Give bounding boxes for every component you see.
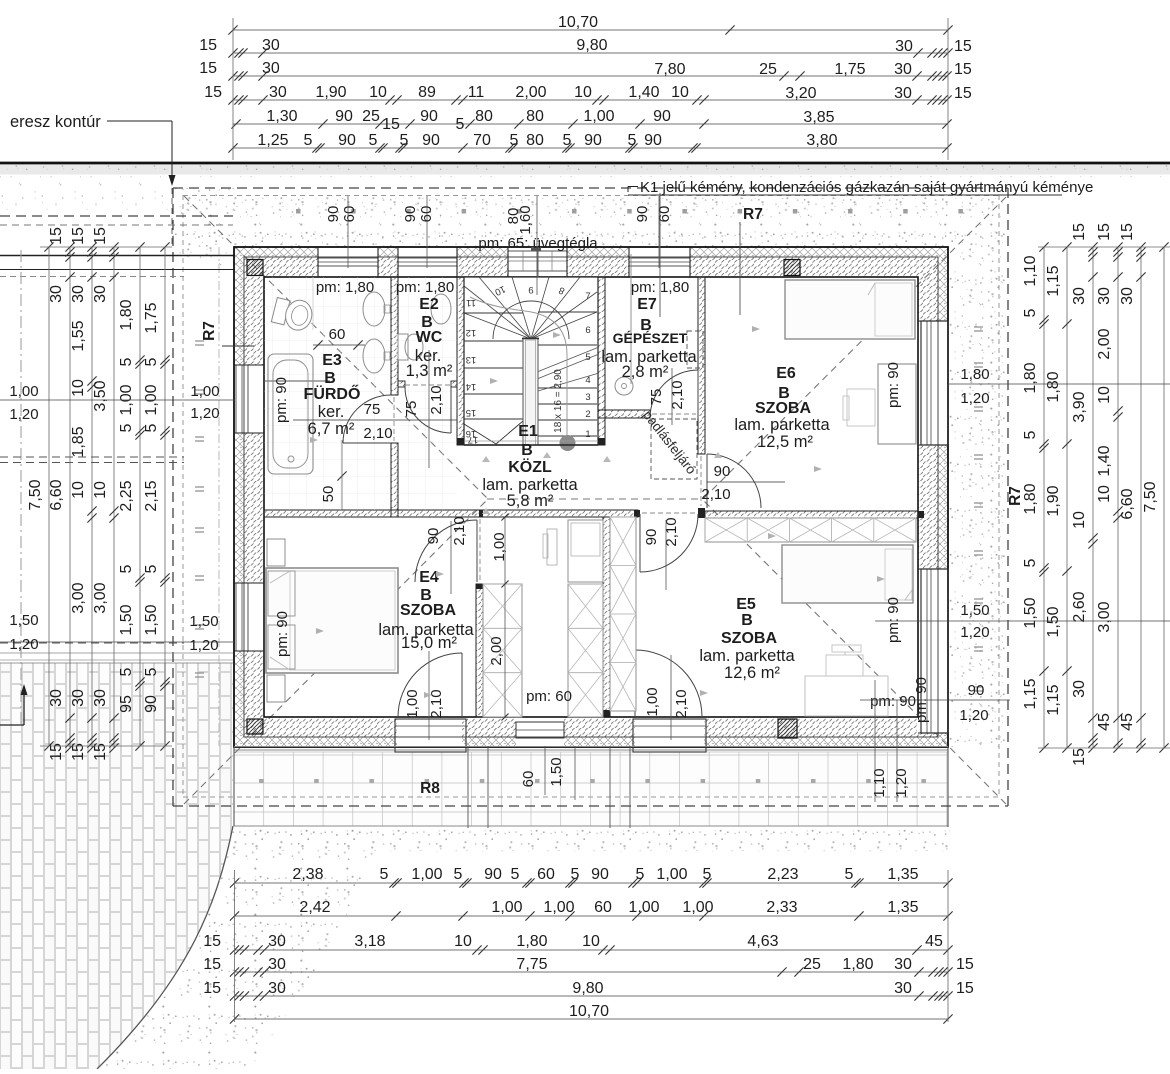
svg-text:pm: 90: pm: 90 <box>885 362 902 408</box>
svg-text:E7: E7 <box>637 296 657 313</box>
svg-text:1,40: 1,40 <box>628 84 659 101</box>
svg-text:1,10: 1,10 <box>871 768 888 797</box>
svg-text:1,50: 1,50 <box>1022 597 1039 628</box>
E6/E5 wall <box>705 511 918 518</box>
svg-text:1,15: 1,15 <box>1045 684 1062 715</box>
svg-text:10: 10 <box>369 84 387 101</box>
svg-text:7,75: 7,75 <box>516 956 547 973</box>
svg-text:2,10: 2,10 <box>428 385 445 414</box>
svg-text:60: 60 <box>537 866 555 883</box>
WC fixtures <box>431 294 451 324</box>
svg-text:10: 10 <box>92 481 109 499</box>
svg-text:10: 10 <box>1096 386 1113 404</box>
bottom leaders R8 etc <box>467 746 469 828</box>
stair east / E7 west wall <box>598 277 605 445</box>
svg-text:15: 15 <box>1071 748 1088 766</box>
svg-text:90: 90 <box>968 682 985 699</box>
door E6 <box>707 454 761 508</box>
svg-text:5,8 m²: 5,8 m² <box>507 492 554 510</box>
svg-text:25: 25 <box>803 956 821 973</box>
svg-text:pm: 65: üvegtégla: pm: 65: üvegtégla <box>478 235 598 252</box>
FURDO shower partition <box>264 380 330 382</box>
svg-text:60: 60 <box>594 899 612 916</box>
dim chain bottom row 2,42 <box>235 915 949 917</box>
svg-text:WC: WC <box>416 329 443 346</box>
svg-text:2,25: 2,25 <box>118 480 135 511</box>
svg-text:1,50: 1,50 <box>1045 606 1062 637</box>
svg-text:2,10: 2,10 <box>428 689 445 718</box>
svg-text:90: 90 <box>338 132 356 149</box>
svg-text:1,20: 1,20 <box>959 707 988 724</box>
svg-text:5: 5 <box>143 357 160 366</box>
svg-text:5: 5 <box>118 423 135 432</box>
E5 desk <box>805 676 888 716</box>
svg-text:4: 4 <box>585 375 590 386</box>
svg-text:80: 80 <box>475 108 493 125</box>
svg-text:pm: 90: pm: 90 <box>870 693 916 710</box>
svg-text:5: 5 <box>456 116 465 133</box>
stair west wall <box>457 277 464 445</box>
svg-text:pm: 60: pm: 60 <box>526 688 572 705</box>
svg-text:9,80: 9,80 <box>572 980 603 997</box>
svg-text:15: 15 <box>204 84 222 101</box>
svg-text:1: 1 <box>585 429 590 440</box>
svg-text:E5: E5 <box>736 596 756 613</box>
svg-text:5: 5 <box>304 132 313 149</box>
dim chain bottom total 10,70 <box>235 1018 949 1020</box>
svg-text:1,80: 1,80 <box>1045 371 1062 402</box>
dim chain left col 6,60 <box>69 247 71 748</box>
svg-text:5: 5 <box>703 866 712 883</box>
svg-text:10: 10 <box>582 933 600 950</box>
dim chain left col 1,80 <box>139 247 141 746</box>
dashed door projections <box>405 384 451 386</box>
svg-text:89: 89 <box>418 84 436 101</box>
svg-text:60: 60 <box>520 771 537 788</box>
dim chain bottom row 7,75 <box>235 971 949 973</box>
door E5 entry <box>640 514 698 572</box>
svg-text:7,50: 7,50 <box>27 479 44 510</box>
corridor cabinet + wardrobe east <box>568 520 603 582</box>
svg-text:90: 90 <box>591 866 609 883</box>
svg-text:1,40: 1,40 <box>1096 445 1113 476</box>
svg-text:30: 30 <box>268 956 286 973</box>
svg-text:7: 7 <box>585 291 590 302</box>
E4 bed <box>266 568 398 673</box>
svg-text:1,80: 1,80 <box>516 933 547 950</box>
svg-text:10: 10 <box>574 84 592 101</box>
svg-text:30: 30 <box>262 37 280 54</box>
svg-text:30: 30 <box>894 85 912 102</box>
dim chain bottom row 9,80 <box>235 995 949 997</box>
stair treads left flight (down) <box>464 312 523 314</box>
dim chain top row 7,80 <box>233 75 948 77</box>
FURDO toilet <box>271 295 315 333</box>
stair winder bottom-left <box>464 424 496 444</box>
svg-text:2,10: 2,10 <box>673 689 690 718</box>
svg-text:90: 90 <box>644 132 662 149</box>
svg-text:5: 5 <box>380 866 389 883</box>
svg-text:30: 30 <box>1096 287 1113 305</box>
dim chain top row 9,80 <box>233 52 948 54</box>
terrace door E4 <box>398 653 462 717</box>
svg-text:1,90: 1,90 <box>315 84 346 101</box>
svg-text:2,23: 2,23 <box>767 866 798 883</box>
building edges extended to terrace <box>947 747 949 827</box>
E6 window dim right <box>948 383 1170 385</box>
svg-text:15: 15 <box>954 38 972 55</box>
ground/eaves thick line <box>0 162 1170 165</box>
svg-text:15: 15 <box>199 60 217 77</box>
svg-text:15: 15 <box>956 956 974 973</box>
dim chain right col 3,90 <box>1092 247 1094 748</box>
svg-text:pm: 1,80: pm: 1,80 <box>631 279 689 296</box>
dim chain right col 1,15 <box>1066 247 1068 748</box>
svg-text:70: 70 <box>473 132 491 149</box>
svg-text:5: 5 <box>571 866 580 883</box>
svg-text:30: 30 <box>1071 680 1088 698</box>
svg-text:30: 30 <box>895 38 913 55</box>
stair block <box>464 277 598 445</box>
svg-text:30: 30 <box>262 60 280 77</box>
svg-text:1,30: 1,30 <box>266 108 297 125</box>
svg-text:SZOBA: SZOBA <box>721 630 777 647</box>
svg-text:SZOBA: SZOBA <box>755 400 811 417</box>
svg-text:1,10: 1,10 <box>1022 255 1039 286</box>
svg-text:5: 5 <box>143 667 160 676</box>
E4 nightstands <box>267 539 285 566</box>
E5 north wardrobe <box>705 518 916 542</box>
tile floor FURDO/WC/lobby <box>264 277 391 510</box>
contour = marks <box>195 340 204 342</box>
svg-text:12,6 m²: 12,6 m² <box>724 664 780 682</box>
svg-text:3,00: 3,00 <box>70 582 87 613</box>
svg-text:1,00: 1,00 <box>583 108 614 125</box>
svg-text:2,60: 2,60 <box>1071 591 1088 622</box>
door FURDO <box>343 395 391 443</box>
svg-text:90: 90 <box>653 108 671 125</box>
svg-text:15: 15 <box>199 37 217 54</box>
dim chain left col 1,75 <box>164 247 166 746</box>
svg-text:7,50: 7,50 <box>1142 481 1159 512</box>
svg-text:15: 15 <box>954 85 972 102</box>
left wall windows <box>236 365 248 433</box>
dim chain bottom row 2,38 <box>235 882 949 884</box>
svg-text:E6: E6 <box>776 365 796 382</box>
bathtub <box>268 354 313 474</box>
svg-text:1,00: 1,00 <box>404 689 421 718</box>
svg-text:30: 30 <box>70 285 87 303</box>
svg-text:1,00: 1,00 <box>628 899 659 916</box>
svg-text:9: 9 <box>528 284 533 295</box>
E4 window dim left <box>0 641 234 643</box>
svg-text:1,35: 1,35 <box>887 866 918 883</box>
E5 window dim right <box>875 620 1170 622</box>
svg-text:6,7 m²: 6,7 m² <box>308 420 355 438</box>
svg-text:FÜRDŐ: FÜRDŐ <box>304 384 361 403</box>
svg-text:5: 5 <box>118 564 135 573</box>
left block connectors <box>40 246 172 248</box>
svg-text:K1 jelű kémény, kondenzációs g: K1 jelű kémény, kondenzációs gázkazán sa… <box>640 179 1093 196</box>
svg-text:pm: 1,80: pm: 1,80 <box>316 279 374 296</box>
svg-text:B: B <box>324 370 336 387</box>
E5 bed <box>782 545 913 603</box>
svg-text:eresz kontúr: eresz kontúr <box>10 113 101 131</box>
svg-text:15: 15 <box>954 61 972 78</box>
svg-text:5: 5 <box>585 352 590 363</box>
right door dim 90 <box>860 699 1010 701</box>
svg-text:17: 17 <box>468 434 479 445</box>
svg-text:30: 30 <box>92 285 109 303</box>
svg-text:5: 5 <box>511 866 520 883</box>
svg-text:2: 2 <box>585 409 590 420</box>
svg-text:E3: E3 <box>322 352 342 369</box>
svg-text:10: 10 <box>1096 485 1113 503</box>
svg-text:1,50: 1,50 <box>9 612 38 629</box>
dim chain left total 7,50 <box>48 247 50 746</box>
svg-text:10: 10 <box>70 481 87 499</box>
svg-text:5: 5 <box>628 132 637 149</box>
svg-text:90: 90 <box>335 108 353 125</box>
svg-text:2,15: 2,15 <box>143 480 160 511</box>
svg-text:60: 60 <box>656 206 673 223</box>
svg-text:1,00: 1,00 <box>543 899 574 916</box>
svg-text:1,80: 1,80 <box>1022 362 1039 393</box>
svg-text:5: 5 <box>454 866 463 883</box>
svg-text:1,80: 1,80 <box>842 956 873 973</box>
svg-text:7,80: 7,80 <box>654 61 685 78</box>
svg-text:90: 90 <box>420 108 438 125</box>
svg-text:1,80: 1,80 <box>118 299 135 330</box>
svg-text:1,00: 1,00 <box>491 532 508 561</box>
svg-text:6: 6 <box>585 325 590 336</box>
svg-text:13: 13 <box>466 354 477 365</box>
svg-text:25: 25 <box>362 108 380 125</box>
svg-text:3: 3 <box>585 392 590 403</box>
svg-text:2,38: 2,38 <box>292 866 323 883</box>
small triangles in KOZL <box>482 456 490 462</box>
svg-text:10,70: 10,70 <box>569 1003 609 1020</box>
svg-text:90: 90 <box>643 529 660 546</box>
stair walking line <box>470 297 567 441</box>
svg-text:2,10: 2,10 <box>363 425 392 442</box>
svg-text:5: 5 <box>118 667 135 676</box>
svg-text:1,50: 1,50 <box>143 604 160 635</box>
svg-text:11: 11 <box>466 297 476 308</box>
door dim leader lines <box>428 350 430 468</box>
svg-text:1,90: 1,90 <box>1045 485 1062 516</box>
svg-text:10: 10 <box>454 933 472 950</box>
dim chain right total 7,50 <box>1163 247 1165 748</box>
svg-text:2,10: 2,10 <box>701 486 730 503</box>
svg-text:12: 12 <box>466 327 477 338</box>
WC south wall with door opening <box>398 381 405 387</box>
svg-text:R7: R7 <box>201 321 218 341</box>
svg-text:5: 5 <box>400 132 409 149</box>
svg-text:15,0 m²: 15,0 m² <box>401 634 457 652</box>
svg-text:15: 15 <box>466 407 477 418</box>
exterior wall: insulation ring <box>234 247 948 747</box>
corridor wardrobe west <box>483 584 522 717</box>
svg-text:25: 25 <box>759 61 777 78</box>
svg-text:15: 15 <box>1119 223 1136 241</box>
svg-text:5: 5 <box>1022 308 1039 317</box>
svg-text:2,42: 2,42 <box>299 899 330 916</box>
svg-text:30: 30 <box>1119 287 1136 305</box>
svg-text:10: 10 <box>1071 511 1088 529</box>
svg-text:95: 95 <box>118 695 135 713</box>
svg-text:90: 90 <box>634 206 651 223</box>
svg-text:1,50: 1,50 <box>960 602 989 619</box>
svg-text:15: 15 <box>70 227 87 245</box>
svg-text:5: 5 <box>636 866 645 883</box>
svg-text:15: 15 <box>48 227 65 245</box>
svg-text:90: 90 <box>143 695 160 713</box>
svg-text:30: 30 <box>894 61 912 78</box>
svg-text:10: 10 <box>671 84 689 101</box>
right wall windows <box>921 321 948 445</box>
stair winder fan <box>464 286 531 339</box>
svg-text:1,20: 1,20 <box>190 405 219 422</box>
svg-text:1,20: 1,20 <box>9 636 38 653</box>
svg-text:30: 30 <box>1071 287 1088 305</box>
svg-text:6,60: 6,60 <box>48 479 65 510</box>
svg-text:3,50: 3,50 <box>92 380 109 411</box>
dark wall blocks <box>247 260 263 276</box>
dim chain top total 10,70 <box>233 29 948 31</box>
svg-text:15: 15 <box>203 980 221 997</box>
corridor/E4 wall <box>476 584 483 717</box>
partition FURDO/WC <box>391 277 398 395</box>
svg-text:SZOBA: SZOBA <box>400 602 456 619</box>
left structure (garage) <box>0 255 234 257</box>
svg-text:1,85: 1,85 <box>70 426 87 457</box>
svg-text:5: 5 <box>845 866 854 883</box>
svg-text:1,75: 1,75 <box>834 61 865 78</box>
exterior wall outlines <box>234 247 948 747</box>
svg-text:30: 30 <box>48 285 65 303</box>
E7 boiler <box>615 377 633 395</box>
glass block window <box>508 251 567 271</box>
wall end caps <box>479 510 483 517</box>
stair treads right flight <box>538 311 597 313</box>
svg-text:30: 30 <box>894 956 912 973</box>
svg-text:9,80: 9,80 <box>576 37 607 54</box>
FURDO basins <box>363 292 385 326</box>
svg-text:45: 45 <box>925 933 943 950</box>
chimney dashed box <box>687 331 703 368</box>
svg-text:1,35: 1,35 <box>887 899 918 916</box>
top windows frames <box>318 258 378 266</box>
svg-text:1,50: 1,50 <box>189 613 218 630</box>
svg-text:1,20: 1,20 <box>960 390 989 407</box>
svg-text:1,00: 1,00 <box>411 866 442 883</box>
svg-text:90: 90 <box>325 206 342 223</box>
svg-text:10,70: 10,70 <box>558 14 598 31</box>
svg-text:1,20: 1,20 <box>189 637 218 654</box>
svg-text:pm: 90: pm: 90 <box>274 611 291 657</box>
svg-text:1,60: 1,60 <box>517 205 534 234</box>
svg-text:45: 45 <box>1096 713 1113 731</box>
bottom block connectors <box>234 870 236 1022</box>
dim chain right col 6,60 <box>1140 247 1142 748</box>
terrace door E5 <box>635 650 702 717</box>
stair break lines <box>537 347 599 372</box>
svg-text:1,00: 1,00 <box>9 383 38 400</box>
svg-text:6,60: 6,60 <box>1119 488 1136 519</box>
corridor/E5 wall <box>603 517 610 716</box>
top block connectors <box>232 18 234 160</box>
bottom openings (terrace doors + window) <box>395 719 466 752</box>
dim chain left col 1,55 <box>91 247 93 748</box>
svg-text:1,75: 1,75 <box>143 302 160 333</box>
svg-text:11: 11 <box>468 84 485 101</box>
svg-text:E2: E2 <box>419 296 439 313</box>
svg-text:2,10: 2,10 <box>669 380 686 409</box>
svg-text:1,80: 1,80 <box>960 366 989 383</box>
svg-text:15: 15 <box>203 956 221 973</box>
svg-text:1,20: 1,20 <box>893 768 910 797</box>
svg-text:1,50: 1,50 <box>548 757 565 786</box>
E7/E6 wall <box>698 277 705 454</box>
svg-text:5: 5 <box>118 357 135 366</box>
door WC <box>405 387 451 433</box>
svg-text:1,00: 1,00 <box>656 866 687 883</box>
door E4 entry <box>415 520 477 582</box>
E7 south wall <box>598 410 650 418</box>
svg-text:2,00: 2,00 <box>488 636 505 665</box>
svg-text:90: 90 <box>425 528 442 545</box>
svg-text:75: 75 <box>364 401 381 418</box>
svg-text:pm: 90: pm: 90 <box>273 377 290 423</box>
roof hip/ridge dashed lines <box>184 196 487 498</box>
small arrows deco <box>310 437 318 443</box>
svg-text:E1: E1 <box>518 423 538 440</box>
wall y510 FURDO/E4/corridor top <box>264 510 638 517</box>
svg-text:lam. parketta: lam. parketta <box>699 647 795 665</box>
garage arrow <box>0 724 24 726</box>
E6 bed <box>785 280 915 339</box>
svg-text:30: 30 <box>894 980 912 997</box>
svg-text:1,00: 1,00 <box>682 899 713 916</box>
svg-text:3,90: 3,90 <box>1071 391 1088 422</box>
svg-text:5: 5 <box>143 564 160 573</box>
svg-text:80: 80 <box>526 108 544 125</box>
svg-text:1,15: 1,15 <box>1022 678 1039 709</box>
svg-text:45: 45 <box>1119 713 1136 731</box>
svg-text:75: 75 <box>403 401 420 418</box>
svg-text:90: 90 <box>714 463 731 480</box>
svg-text:2,10: 2,10 <box>451 516 468 545</box>
exterior wall: masonry ring <box>244 257 938 737</box>
svg-text:2,33: 2,33 <box>766 899 797 916</box>
svg-text:5: 5 <box>1022 558 1039 567</box>
svg-text:1,25: 1,25 <box>257 132 288 149</box>
svg-text:14: 14 <box>466 381 477 392</box>
svg-text:1,15: 1,15 <box>1045 265 1062 296</box>
svg-text:R8: R8 <box>420 780 440 797</box>
svg-text:pm: 1,80: pm: 1,80 <box>396 279 454 296</box>
svg-text:12,5 m²: 12,5 m² <box>757 433 813 451</box>
svg-text:pm: 90: pm: 90 <box>885 597 902 643</box>
exterior window/door gaps <box>318 246 378 278</box>
svg-text:90: 90 <box>484 866 502 883</box>
svg-text:KÖZL: KÖZL <box>508 457 552 476</box>
svg-text:30: 30 <box>269 84 287 101</box>
attic ladder dashed box <box>651 419 697 479</box>
svg-text:4,63: 4,63 <box>747 933 778 950</box>
svg-text:30: 30 <box>92 689 109 707</box>
